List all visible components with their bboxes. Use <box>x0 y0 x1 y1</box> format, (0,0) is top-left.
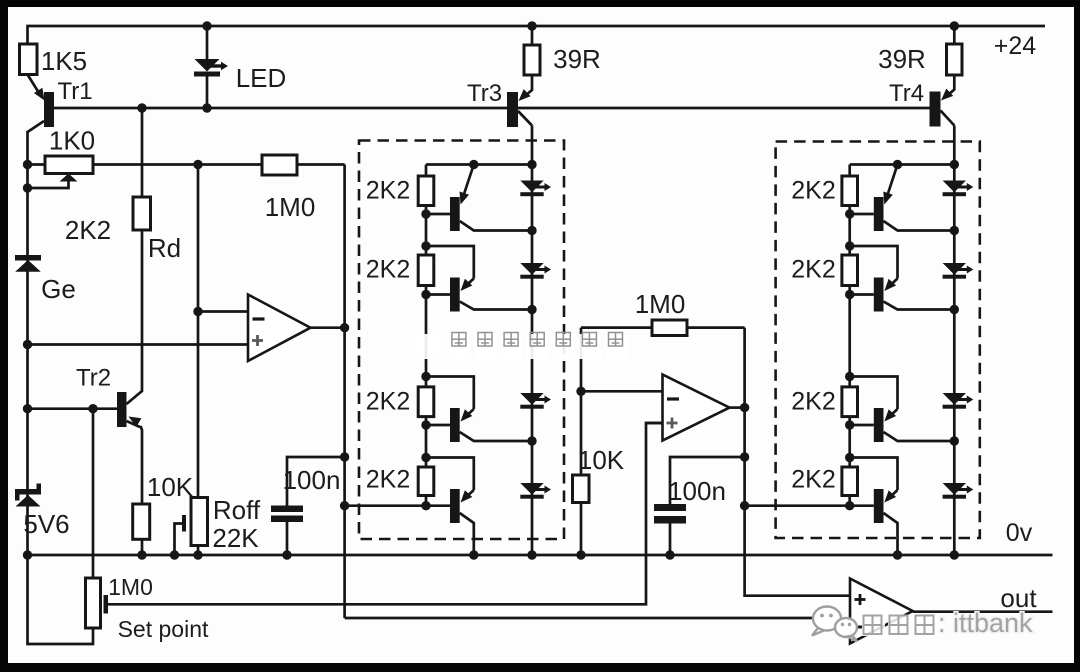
svg-text:39R: 39R <box>878 44 926 74</box>
wire Tr2 base <box>28 407 118 410</box>
LED D3 <box>520 263 551 279</box>
wire U1 plus input <box>28 343 249 346</box>
resistor R8 2K2 <box>366 176 434 206</box>
resistor Rd 2K2 <box>65 197 181 263</box>
transistor Tr1 <box>28 75 93 133</box>
wire resistor chain box 2 <box>848 165 851 506</box>
junction dot base row1 box 2 <box>845 209 854 218</box>
junction dot node row2 box 2 <box>845 241 854 250</box>
wire collector Q1 <box>460 221 532 231</box>
junction dot C1 / U1 output column <box>340 452 349 461</box>
resistor R17 10K <box>573 445 625 503</box>
transistor Tr2 <box>76 365 141 428</box>
transistor Tr4 <box>889 75 954 127</box>
junction dot U1 output <box>340 323 349 332</box>
wire 0v rail (bottom) <box>28 554 1053 557</box>
dashed enclosure box 1 <box>359 141 564 540</box>
svg-text:1M0: 1M0 <box>635 289 686 319</box>
junction dot C2 / U2 output column <box>740 452 749 461</box>
resistor R14 2K2 <box>791 387 857 417</box>
dashed enclosure box 2 <box>776 142 980 539</box>
wire Tr2 base to VR2 (x=93) <box>92 409 95 578</box>
LED D8 <box>943 181 974 197</box>
svg-text:Tr3: Tr3 <box>467 80 502 107</box>
junction dot base row4 box 1 <box>421 501 430 510</box>
wire left supply column (x=27.5) <box>26 131 29 555</box>
resistor R4 1M0 <box>262 155 315 222</box>
op-amp U3 <box>850 579 913 644</box>
resistor R12 2K2 <box>791 176 857 206</box>
wire R16 1M0 feedback left <box>581 326 652 329</box>
LED D10 <box>943 393 974 409</box>
diode D6 Ge <box>15 255 76 304</box>
junction dot D1/base rail <box>202 103 211 112</box>
junction dot collector Q3 <box>527 436 536 445</box>
junction dot U1 plus input / left column <box>23 340 32 349</box>
svg-text:Tr1: Tr1 <box>57 78 92 105</box>
wire collector Q7 <box>884 432 955 441</box>
wire U2 output <box>730 406 745 409</box>
resistor R9 2K2 <box>366 255 434 286</box>
wire top node box 2 <box>850 163 955 166</box>
svg-text:1K5: 1K5 <box>41 46 87 76</box>
wire set point crossing to U2 plus <box>646 422 663 425</box>
capacitor C1 100n <box>271 457 345 555</box>
wire U2 minus node column (x=581) <box>580 328 583 475</box>
resistor R16 1M0 <box>635 289 687 336</box>
junction dot Roff / 0v rail <box>193 550 202 559</box>
svg-text:Set point: Set point <box>118 616 209 642</box>
junction dot collector Q7 <box>950 436 959 445</box>
svg-text:100n: 100n <box>668 476 726 506</box>
wire U1 output <box>311 326 345 329</box>
LED D5 <box>520 483 551 499</box>
label 0v <box>1006 519 1033 547</box>
resistor R2 39R <box>524 25 601 75</box>
LED D1 <box>194 26 286 108</box>
resistor R5 10K <box>133 472 194 539</box>
wire R4 to U1 output column <box>297 163 345 166</box>
junction dot Q4 base wire / output column <box>340 501 349 510</box>
svg-text:100n: 100n <box>283 465 341 495</box>
wire resistor chain box 1 <box>425 165 428 506</box>
svg-text:Ge: Ge <box>41 274 76 304</box>
watermark publisher text <box>417 333 627 360</box>
resistor R13 2K2 <box>791 255 857 286</box>
svg-text:2K2: 2K2 <box>65 215 111 245</box>
junction dot U1 minus column / rail <box>193 160 202 169</box>
wire collector Q3 <box>460 432 532 441</box>
junction dot U1 minus input <box>193 307 202 316</box>
wire U2 minus input <box>581 390 663 393</box>
junction dot collector Q6 <box>950 305 959 314</box>
wire collector Q5 <box>884 221 955 231</box>
wire base row3 box 1 <box>426 424 450 427</box>
op-amp U1 <box>248 295 311 362</box>
wire U3 output (out) <box>913 610 1053 613</box>
junction dot collector Q8 <box>893 550 902 559</box>
junction dot top node/column box 2 <box>950 160 959 169</box>
wire collector Q2 <box>460 302 532 310</box>
svg-text:+24: +24 <box>994 32 1037 60</box>
junction dot collector Q4 <box>469 550 478 559</box>
wire R17 to 0v rail <box>580 503 583 556</box>
wire Roff to 0v rail <box>197 546 200 556</box>
svg-text:2K2: 2K2 <box>366 256 410 284</box>
wire R5 to 0v rail <box>141 539 144 555</box>
junction dot node row3 box 2 <box>845 372 854 381</box>
junction dot C2 / 0v rail <box>665 550 674 559</box>
svg-text:39R: 39R <box>553 44 601 74</box>
transistor Q3 <box>426 377 474 443</box>
LED D4 <box>520 393 551 409</box>
junction dot base row2 box 1 <box>421 290 430 299</box>
junction dot Tr2 base / left column <box>23 404 32 413</box>
junction dot node row4 box 2 <box>845 453 854 462</box>
svg-text:Roff: Roff <box>213 495 261 525</box>
junction dot VR1 wiper / left column <box>23 183 32 192</box>
svg-text:Tr4: Tr4 <box>889 80 924 107</box>
junction dot base row4 box 2 <box>845 501 854 510</box>
junction dot R2/+24 rail <box>527 21 536 30</box>
LED D11 <box>943 483 974 499</box>
transistor Q1 <box>450 165 474 232</box>
transistor Q4 <box>426 458 474 524</box>
transistor Q6 <box>850 246 898 312</box>
junction dot Roff wiper / 0v rail <box>170 550 179 559</box>
svg-text:1M0: 1M0 <box>108 574 153 600</box>
wire base row2 box 2 <box>850 293 874 296</box>
transistor Tr3 <box>467 75 532 127</box>
svg-text:1K0: 1K0 <box>49 126 95 156</box>
wire U2 output to Q8 base (box 2) <box>745 504 850 507</box>
transistor Q7 <box>850 377 898 443</box>
wire VR1 to R4 1M0 (y=164.5) <box>93 163 262 166</box>
wire base row4 box 2 <box>850 504 874 507</box>
wire base row2 box 1 <box>426 293 450 296</box>
potentiometer VR2 1M0 Set point <box>28 555 209 644</box>
junction dot node row4 box 1 <box>421 453 430 462</box>
wire collector Q4 <box>460 513 474 555</box>
junction dot column/0v rail box 1 <box>527 550 536 559</box>
svg-text:Tr2: Tr2 <box>76 365 111 392</box>
junction dot collector Q5 <box>950 226 959 235</box>
wire top node box 1 <box>426 163 532 166</box>
transistor Q8 <box>850 458 898 524</box>
wire base row4 box 1 <box>426 504 450 507</box>
junction dot left column / VR1 <box>23 160 32 169</box>
svg-text:LED: LED <box>236 63 287 93</box>
svg-text:2K2: 2K2 <box>791 256 835 284</box>
resistor R1 1K5 <box>20 25 88 76</box>
junction dot R3/+24 rail <box>950 21 959 30</box>
wire base rail Tr1-Tr3-Tr4 (y=108) <box>54 107 930 110</box>
junction dot left column / 0v rail <box>23 550 32 559</box>
junction dot R17 / 0v rail <box>576 550 585 559</box>
svg-text:2K2: 2K2 <box>791 177 835 205</box>
svg-text:5V6: 5V6 <box>23 509 69 539</box>
wire U1 output to U3 minus input <box>345 618 850 627</box>
transistor Q5 <box>874 165 898 232</box>
junction dot column/0v rail box 2 <box>950 550 959 559</box>
svg-text:1M0: 1M0 <box>265 192 316 222</box>
wire Tr2 emitter to R5 10K <box>141 426 143 504</box>
svg-text:0v: 0v <box>1006 519 1033 547</box>
svg-text:2K2: 2K2 <box>366 177 410 205</box>
junction dot C1 / 0v rail <box>282 550 291 559</box>
svg-text:10K: 10K <box>578 445 625 475</box>
wire +24 supply rail (top) <box>28 25 1046 28</box>
svg-text:2K2: 2K2 <box>366 387 410 415</box>
wire R16 to U2 output column <box>687 326 745 329</box>
wire U1 output/feedback column (x=344.6) <box>343 165 346 619</box>
resistor R15 2K2 <box>791 466 857 496</box>
potentiometer VR1 1K0 <box>28 126 96 189</box>
junction dot U2 minus input <box>576 387 585 396</box>
transistor Q2 <box>426 246 474 312</box>
junction dot Tr2 base / set point column <box>88 404 97 413</box>
LED D9 <box>943 263 974 279</box>
capacitor C2 100n <box>654 457 745 555</box>
svg-text:22K: 22K <box>212 523 259 553</box>
svg-text:2K2: 2K2 <box>791 387 835 415</box>
wire base row1 box 2 <box>850 213 874 216</box>
wire U1 minus input <box>198 310 248 313</box>
wire VR2 wiper to U2 plus input <box>108 423 663 604</box>
junction dot top node/emitter box 1 <box>469 160 478 169</box>
junction dot R5 / 0v rail <box>137 550 146 559</box>
wire Rd to Tr2 collector <box>127 230 143 404</box>
junction dot base row2 box 2 <box>845 290 854 299</box>
svg-text:10K: 10K <box>147 472 194 502</box>
wire base row1 box 1 <box>426 213 450 216</box>
svg-text:2K2: 2K2 <box>366 466 410 494</box>
LED D2 <box>520 181 551 197</box>
label +24 <box>994 32 1037 60</box>
junction dot D1/+24 rail <box>202 21 211 30</box>
op-amp U2 <box>663 375 730 441</box>
wire U1 output to Q4 base (box 1) <box>345 504 426 507</box>
junction dot base row3 box 1 <box>421 420 430 429</box>
junction dot top node/column box 1 <box>527 160 536 169</box>
wire base row3 box 2 <box>850 424 874 427</box>
junction dot node row3 box 1 <box>421 372 430 381</box>
resistor R11 2K2 <box>366 466 434 496</box>
label out <box>1000 583 1037 613</box>
watermark wechat id <box>812 607 1033 642</box>
resistor R10 2K2 <box>366 387 434 417</box>
resistor R3 39R <box>878 25 962 75</box>
svg-text:2K2: 2K2 <box>791 466 835 494</box>
svg-text:: ittbank: : ittbank <box>938 608 1033 638</box>
junction dot collector Q2 <box>527 305 536 314</box>
wire collector Q8 <box>884 513 898 555</box>
junction dot node row2 box 1 <box>421 241 430 250</box>
svg-text:Rd: Rd <box>148 233 181 263</box>
wire U1 minus column (x=198) <box>197 165 200 498</box>
trimmer Roff 22K <box>175 495 261 555</box>
wire LED column box 2 (x=954.3) <box>953 126 956 556</box>
junction dot base row1 box 1 <box>421 209 430 218</box>
zener D7 5V6 <box>15 484 70 540</box>
wire LED column box 1 (x=532) <box>531 126 534 556</box>
junction dot collector Q1 <box>527 226 536 235</box>
junction dot Q8 base wire / U2 output column <box>740 501 749 510</box>
wire base rail to Rd <box>141 108 144 197</box>
wire collector Q6 <box>884 302 955 310</box>
junction dot U2 output <box>740 403 749 412</box>
junction dot base row3 box 2 <box>845 420 854 429</box>
junction dot Rd column / base rail <box>137 103 146 112</box>
wire U2 output column (x=744.6) <box>745 328 850 596</box>
junction dot top node/emitter box 2 <box>893 160 902 169</box>
